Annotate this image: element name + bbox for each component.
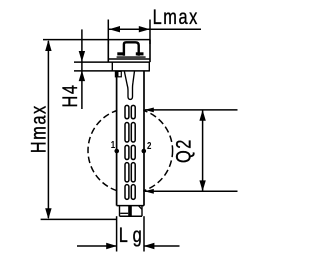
svg-text:H4: H4 (58, 83, 81, 107)
svg-text:Lg: Lg (119, 223, 147, 246)
svg-text:Lmax: Lmax (153, 5, 199, 28)
svg-text:2: 2 (147, 140, 151, 151)
svg-text:1: 1 (111, 139, 115, 150)
svg-text:Q2: Q2 (171, 138, 194, 163)
svg-text:Hmax: Hmax (27, 104, 50, 153)
